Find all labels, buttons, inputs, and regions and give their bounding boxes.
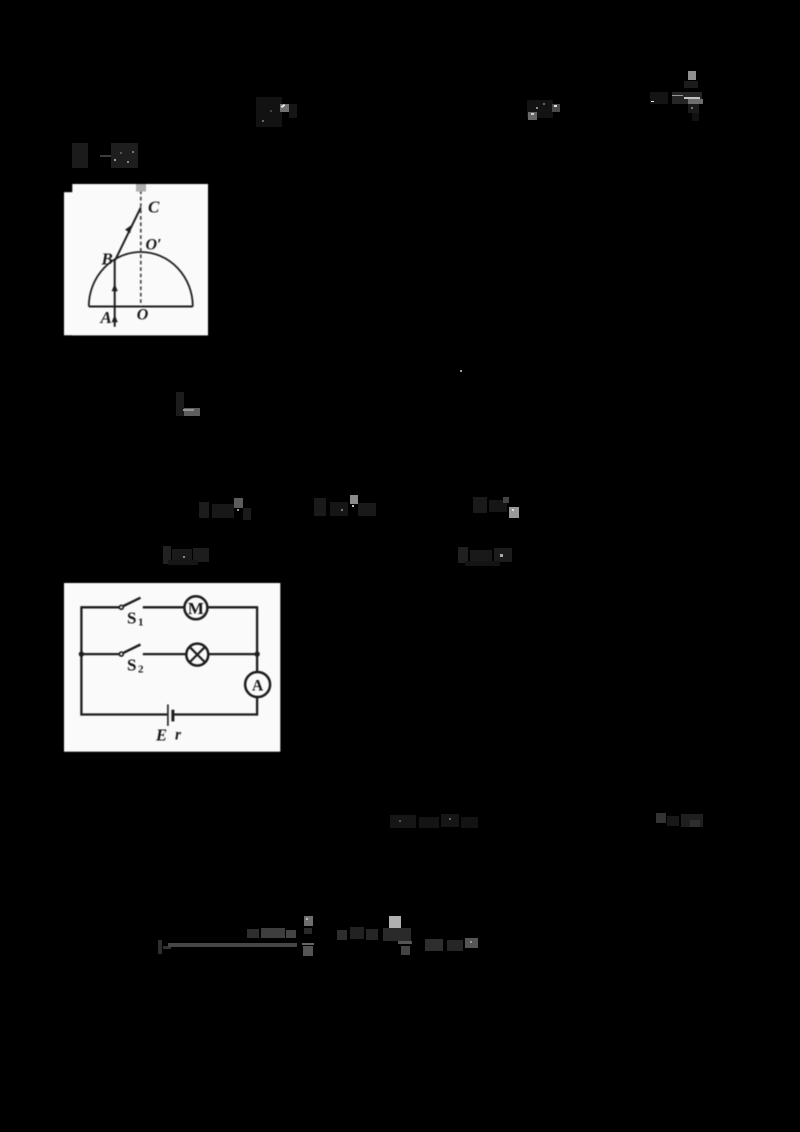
- svg-text:S: S: [127, 609, 136, 628]
- svg-text:2: 2: [138, 664, 144, 676]
- svg-text:E: E: [155, 726, 167, 745]
- svg-text:O′: O′: [145, 236, 161, 253]
- svg-text:M: M: [188, 599, 204, 618]
- svg-text:1: 1: [138, 617, 144, 629]
- svg-text:C: C: [148, 197, 160, 216]
- svg-text:B: B: [100, 249, 112, 268]
- svg-text:O: O: [137, 306, 149, 323]
- svg-text:A: A: [99, 308, 111, 327]
- svg-text:r: r: [175, 727, 182, 744]
- svg-text:A: A: [252, 678, 264, 695]
- svg-text:S: S: [127, 655, 136, 674]
